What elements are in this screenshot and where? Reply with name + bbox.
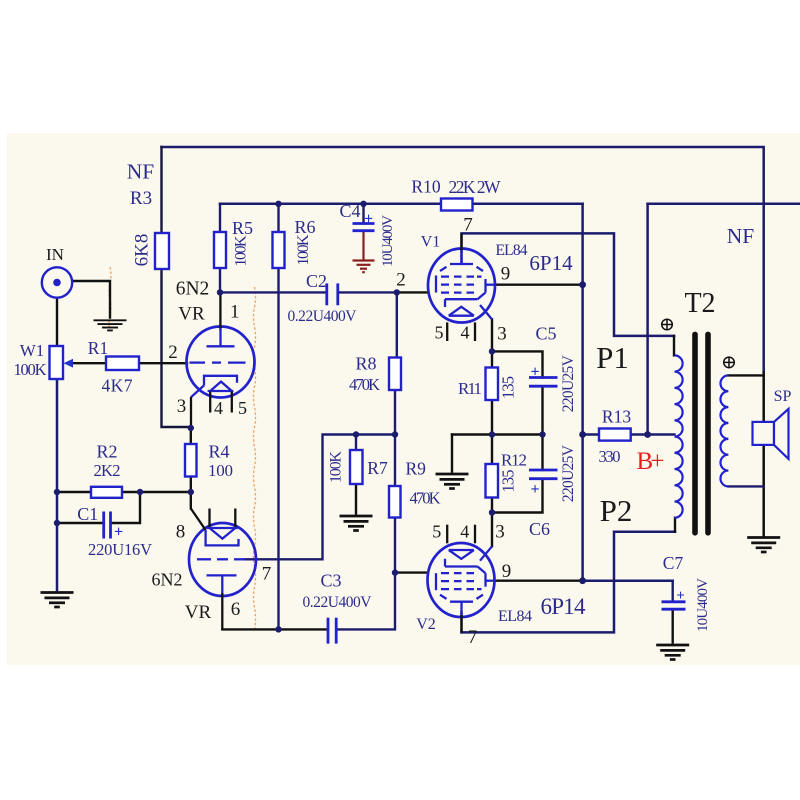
wire C2 to R8 node — [338, 291, 397, 293]
svg-text:330: 330 — [599, 447, 621, 466]
node C5/C6 — [539, 431, 545, 437]
node R3/pin3/R4 — [188, 425, 194, 431]
svg-text:470K: 470K — [349, 375, 380, 394]
svg-text:W1: W1 — [20, 341, 45, 360]
node C2/R8/V1 grid — [394, 289, 400, 295]
svg-text:C3: C3 — [320, 571, 341, 591]
wire W1 bottom to ground rail — [56, 379, 59, 590]
svg-text:VR: VR — [178, 304, 205, 325]
svg-text:+: + — [114, 524, 123, 541]
svg-text:10U400V: 10U400V — [695, 578, 711, 632]
svg-text:3: 3 — [497, 324, 507, 345]
wire R12 bottom stem — [491, 498, 493, 513]
wire secondary top to speaker line — [728, 374, 763, 376]
input jack IN — [42, 267, 72, 297]
wire cathode bus with ground tap — [452, 433, 543, 435]
svg-text:NF: NF — [127, 160, 155, 184]
resistor R5 — [214, 232, 226, 268]
svg-text:C6: C6 — [529, 519, 550, 539]
wire B+ drop to center tap — [646, 204, 649, 435]
svg-text:IN: IN — [46, 245, 64, 264]
wire secondary bottom to speaker line — [728, 485, 763, 487]
node pin6/R6/C3 — [275, 626, 281, 632]
svg-text:R1: R1 — [88, 338, 108, 358]
svg-text:6K8: 6K8 — [132, 234, 153, 267]
svg-text:0.22U400V: 0.22U400V — [288, 308, 358, 325]
wire C6 top stem — [541, 435, 543, 471]
svg-text:EL84: EL84 — [498, 608, 532, 625]
svg-text:7: 7 — [463, 215, 473, 236]
svg-text:6N2: 6N2 — [152, 570, 183, 590]
wire R11 top stem — [491, 351, 493, 367]
svg-text:100K: 100K — [233, 235, 250, 266]
wire R4 top stem — [190, 428, 192, 444]
wire R6 top stem — [277, 204, 279, 232]
svg-text:6N2: 6N2 — [176, 279, 210, 300]
node R12/C6 bottom — [489, 509, 495, 515]
node screen rail R13 — [579, 431, 586, 438]
svg-text:R11: R11 — [458, 379, 482, 398]
svg-text:SP: SP — [774, 388, 792, 405]
ground (cathode bus) — [436, 474, 469, 489]
svg-text:6: 6 — [231, 599, 241, 620]
wire R1 to grid pin2 — [140, 362, 188, 364]
svg-text:6P14: 6P14 — [529, 251, 573, 275]
svg-text:+: + — [530, 364, 539, 381]
svg-text:5: 5 — [435, 323, 444, 343]
wire R5 top stem — [219, 204, 221, 232]
node R5/plate/C2 — [217, 289, 223, 295]
svg-text:NF: NF — [727, 224, 755, 248]
svg-text:2K2: 2K2 — [94, 461, 121, 480]
svg-text:2: 2 — [168, 342, 178, 363]
triode VR lower 6N2 — [189, 509, 256, 630]
wire V2 pin9 to screen rail — [494, 580, 583, 582]
node R11/R12 — [489, 431, 495, 437]
svg-text:2: 2 — [396, 270, 406, 291]
svg-text:R3: R3 — [130, 188, 152, 209]
T2 secondary winding — [720, 375, 728, 486]
wire V2 grid node to tube — [395, 571, 428, 573]
svg-text:4: 4 — [460, 522, 469, 542]
wire R7 top stem — [355, 435, 357, 451]
resistor R13 — [599, 429, 631, 441]
wire C7 bottom to ground — [672, 610, 674, 643]
wire R9 bottom to V2 grid node — [394, 518, 396, 573]
node rail R2 left — [54, 489, 60, 495]
wire cathode node y492 left — [57, 491, 91, 493]
wire V2 pin7 to primary bottom P2 — [462, 532, 676, 633]
svg-text:6P14: 6P14 — [541, 594, 587, 619]
wire screen rail to C7 — [583, 579, 673, 582]
svg-text:VR: VR — [185, 602, 212, 623]
capacitor C5 — [529, 378, 558, 387]
capacitor C3 — [328, 618, 336, 644]
wire R5 bottom to plate node — [219, 268, 221, 292]
T2 polarity mark right — [724, 357, 735, 368]
svg-text:10U400V: 10U400V — [380, 215, 396, 267]
svg-text:R2: R2 — [96, 442, 117, 462]
svg-text:9: 9 — [501, 264, 511, 285]
wire R13 right to primary tap — [631, 433, 675, 435]
T2 polarity mark left — [662, 319, 673, 330]
node B+ center tap — [644, 431, 651, 438]
svg-text:9: 9 — [502, 561, 512, 582]
node C1 right — [137, 489, 143, 495]
wire R10 to screen rail — [473, 203, 583, 206]
potentiometer W1 — [50, 346, 107, 379]
svg-text:135: 135 — [499, 376, 518, 399]
resistor R3 — [155, 233, 169, 269]
wire R2 to R4 node — [122, 491, 191, 493]
svg-text:5: 5 — [432, 522, 441, 542]
ground (input) — [94, 320, 127, 330]
resistor R4 — [185, 444, 197, 477]
wire V1 pin7 to primary top — [462, 233, 675, 336]
wire R11 bottom stem — [491, 400, 493, 435]
svg-text:7: 7 — [468, 627, 478, 648]
resistor R10 — [441, 199, 473, 211]
node V1 pin3 — [489, 348, 495, 354]
wire V1 pin9 to screen rail — [495, 284, 583, 286]
capacitor C7 — [662, 602, 686, 609]
svg-text:C1: C1 — [77, 504, 98, 524]
wire V2 pin3 stem — [491, 513, 493, 547]
wire C5 bottom stem — [541, 386, 543, 434]
capacitor C6 — [529, 470, 558, 479]
node R6 top rail — [275, 201, 281, 207]
wire C3 left to pin6 node — [279, 628, 327, 630]
resistor R6 — [273, 232, 285, 268]
wire R8 bottom to junction — [394, 390, 396, 435]
svg-text:C2: C2 — [306, 271, 327, 291]
resistor R7 — [350, 450, 363, 484]
wire C1 left — [57, 522, 103, 524]
wire NF feedback top — [162, 147, 764, 372]
wire C6 bottom to node — [492, 479, 543, 513]
wire top supply rail left of R10 — [220, 203, 441, 206]
svg-text:22K 2W: 22K 2W — [449, 177, 501, 197]
resistor R8 — [389, 358, 401, 391]
svg-text:+: + — [530, 481, 539, 498]
ground (left rail) — [41, 593, 74, 608]
wire R4 bottom stem — [190, 477, 192, 493]
wire plate node to C2 — [220, 291, 327, 293]
svg-text:V2: V2 — [416, 616, 436, 633]
svg-text:470K: 470K — [410, 489, 441, 508]
svg-text:B+: B+ — [637, 448, 665, 475]
node V2 pin9 screen rail — [579, 577, 586, 584]
resistor R2 — [91, 487, 122, 498]
wire jack to input ground — [73, 281, 111, 318]
T2 core — [692, 334, 698, 532]
svg-text:7: 7 — [262, 564, 272, 585]
scan artifact squiggle middle — [254, 287, 256, 632]
wire B+ rail to edge — [648, 203, 800, 206]
svg-text:T2: T2 — [684, 288, 715, 319]
svg-text:0.22U400V: 0.22U400V — [303, 594, 373, 611]
svg-text:C7: C7 — [663, 553, 684, 573]
svg-text:220U25V: 220U25V — [560, 354, 577, 412]
svg-text:EL84: EL84 — [496, 242, 528, 259]
svg-text:3: 3 — [495, 522, 505, 543]
wire V2 grid node down to C3 — [338, 573, 395, 630]
speaker SP — [753, 409, 789, 459]
ground (R7) — [340, 516, 373, 531]
capacitor C1 — [104, 512, 111, 539]
svg-text:8: 8 — [176, 522, 186, 543]
svg-text:100K: 100K — [295, 234, 312, 265]
svg-text:R4: R4 — [208, 442, 229, 462]
pentode V1 EL84 — [428, 233, 496, 341]
resistor R12 — [486, 464, 499, 498]
wire C4 top stem — [362, 204, 364, 224]
node rail C1 left — [54, 520, 60, 526]
wire R7 bottom to ground — [355, 484, 357, 514]
wire ground tap drop — [451, 435, 453, 472]
node C4 top rail — [360, 201, 366, 207]
svg-text:R6: R6 — [294, 217, 315, 237]
capacitor C2 — [327, 283, 338, 305]
svg-text:R12: R12 — [501, 451, 527, 470]
scan artifact squiggle left — [109, 267, 111, 331]
svg-text:100K: 100K — [14, 360, 47, 379]
resistor R1 — [106, 357, 139, 371]
svg-text:C5: C5 — [535, 324, 556, 344]
svg-text:220U16V: 220U16V — [88, 540, 152, 559]
svg-text:R8: R8 — [355, 354, 376, 374]
capacitor C4 — [353, 224, 375, 231]
wire V2 plate stem — [460, 612, 462, 632]
wire R8 node to V1 grid — [397, 291, 429, 293]
wire R8 top stem — [396, 292, 398, 357]
wire C1 right up to R2 node — [111, 492, 140, 523]
svg-text:4: 4 — [461, 323, 470, 343]
ground (speaker) — [747, 538, 780, 553]
pentode V2 EL84 — [428, 525, 496, 633]
ground (C7) — [656, 645, 689, 660]
node V1 pin9 screen rail — [579, 281, 586, 288]
svg-text:4: 4 — [214, 398, 223, 418]
node R9/C3/V2 grid — [392, 569, 398, 575]
svg-text:135: 135 — [499, 470, 518, 493]
resistor R11 — [486, 368, 499, 401]
svg-text:C4: C4 — [339, 201, 360, 221]
wire pin6 to node — [222, 628, 278, 630]
wire pin8 drop — [190, 492, 192, 509]
svg-text:+: + — [364, 211, 373, 228]
node R8/R9 junction — [392, 431, 398, 437]
transformer T2 — [662, 319, 735, 533]
svg-text:3: 3 — [177, 396, 187, 417]
wire lower 6N2 grid to R7 line — [245, 435, 396, 560]
ground C4 (dark red) — [353, 231, 375, 273]
T2 primary winding — [675, 355, 683, 517]
svg-text:4K7: 4K7 — [102, 376, 133, 396]
svg-text:P1: P1 — [596, 340, 629, 375]
node R7 top — [353, 431, 359, 437]
node R2/R4 cathode — [188, 489, 194, 495]
wire C7 top stem — [672, 581, 674, 602]
wire pin3 node to C5 — [492, 351, 543, 377]
triode VR upper 6N2 — [187, 292, 255, 428]
svg-text:100: 100 — [208, 461, 233, 480]
wire R6 bottom long drop to pin6 node — [277, 268, 279, 629]
svg-text:R10: R10 — [411, 177, 440, 197]
wire screen rail vertical — [581, 204, 584, 581]
svg-text:100K: 100K — [328, 451, 345, 483]
resistor R9 — [389, 486, 401, 518]
svg-text:V1: V1 — [421, 234, 441, 251]
wire primary top link — [673, 336, 675, 356]
svg-text:R7: R7 — [367, 458, 388, 478]
wire V1 pin3 stem — [491, 319, 493, 351]
wire R3 branch to cathode node — [162, 147, 191, 427]
wire R13 left stem — [583, 433, 599, 435]
svg-text:5: 5 — [238, 398, 247, 418]
svg-text:R5: R5 — [232, 218, 253, 238]
wire NF right vertical to ground — [762, 372, 765, 535]
svg-text:+: + — [676, 588, 685, 604]
svg-text:P2: P2 — [600, 493, 633, 528]
svg-text:R9: R9 — [405, 459, 426, 479]
svg-text:220U25V: 220U25V — [560, 444, 577, 502]
wire jack to W1 — [56, 298, 58, 346]
svg-text:1: 1 — [230, 302, 240, 323]
wire primary bottom link — [674, 518, 676, 532]
wire junction to R9 top — [394, 435, 396, 487]
wire R12 top stem — [491, 435, 493, 465]
svg-text:R13: R13 — [602, 407, 631, 427]
